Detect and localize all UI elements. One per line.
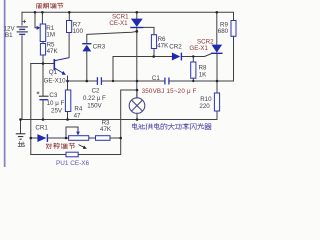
- svg-text:10 μ F: 10 μ F: [47, 100, 65, 107]
- svg-text:150V: 150V: [87, 103, 102, 110]
- svg-text:1K: 1K: [199, 72, 207, 79]
- svg-text:680: 680: [218, 28, 229, 35]
- svg-text:220: 220: [199, 103, 210, 110]
- svg-text:B1: B1: [5, 32, 13, 39]
- svg-text:0.22 μ F: 0.22 μ F: [83, 95, 106, 102]
- svg-text:PU1 CE-X6: PU1 CE-X6: [56, 160, 89, 167]
- svg-text:1M: 1M: [46, 32, 55, 39]
- svg-text:GE-X10: GE-X10: [44, 77, 67, 84]
- svg-text:25V: 25V: [51, 107, 63, 114]
- svg-text:47: 47: [74, 112, 81, 119]
- svg-text:R8: R8: [199, 64, 207, 71]
- svg-text:CR3: CR3: [93, 44, 106, 51]
- svg-text:CR1: CR1: [35, 125, 48, 132]
- svg-text:350VBJ 15~20 μ F: 350VBJ 15~20 μ F: [142, 88, 197, 95]
- svg-text:CE-X1: CE-X1: [109, 20, 128, 27]
- svg-text:Q1: Q1: [49, 69, 58, 76]
- svg-text:CR2: CR2: [169, 43, 182, 50]
- svg-text:C1: C1: [152, 75, 160, 82]
- svg-text:GE-X1: GE-X1: [189, 45, 208, 52]
- svg-text:100: 100: [73, 28, 84, 35]
- svg-text:47K: 47K: [157, 42, 169, 49]
- svg-text:R4: R4: [74, 105, 82, 112]
- svg-text:47K: 47K: [100, 126, 112, 133]
- svg-text:47K: 47K: [47, 48, 59, 55]
- svg-text:C3: C3: [49, 92, 57, 99]
- svg-text:C2: C2: [92, 88, 100, 95]
